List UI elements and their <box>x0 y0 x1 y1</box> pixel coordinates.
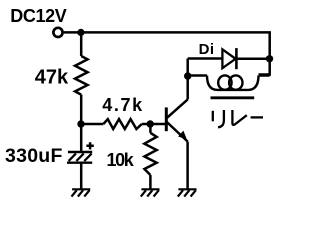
svg-text:4.7k: 4.7k <box>102 95 143 115</box>
svg-text:47k: 47k <box>35 67 69 89</box>
svg-text:330uF: 330uF <box>5 145 63 167</box>
svg-text:10k: 10k <box>107 150 135 170</box>
svg-text:Di: Di <box>199 41 215 58</box>
svg-text:DC12V: DC12V <box>10 6 66 26</box>
